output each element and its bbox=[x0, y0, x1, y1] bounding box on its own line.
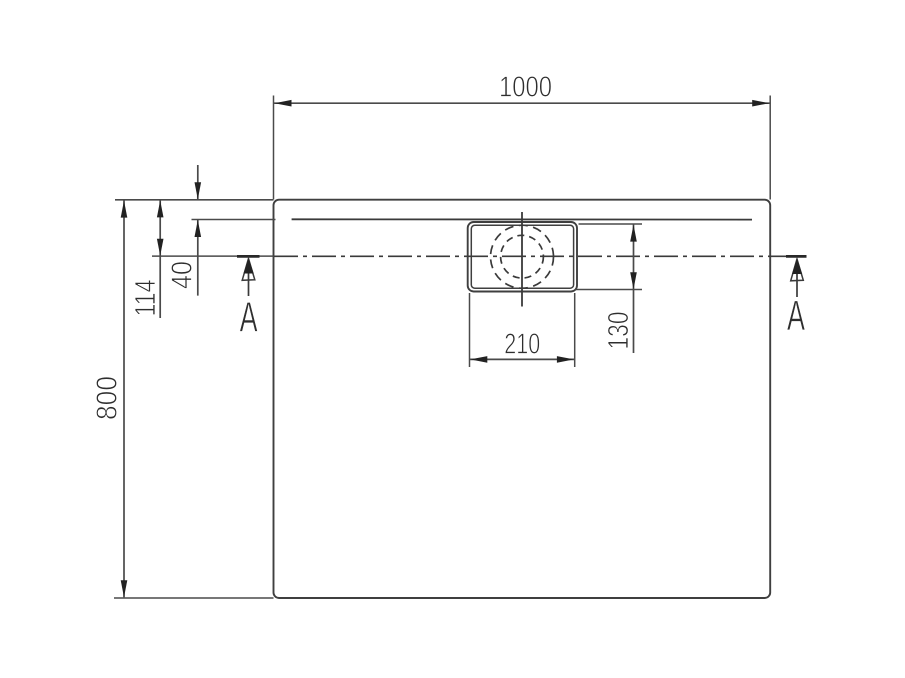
svg-text:1000: 1000 bbox=[499, 72, 552, 104]
tray outline bbox=[274, 200, 771, 598]
section arrow A left filled head bbox=[244, 258, 254, 273]
drain cover inner bbox=[471, 225, 573, 288]
dim 800 extension line bottom bbox=[114, 597, 274, 599]
dim 40 dimension line upper bbox=[197, 165, 199, 199]
dim 40 arrow down to top edge bbox=[195, 182, 202, 199]
dim 800 arrow up bbox=[121, 201, 128, 218]
centre line horizontal solid left part bbox=[152, 255, 274, 257]
dim 130 dimension line bbox=[633, 224, 635, 353]
dim 1000 arrow right bbox=[752, 100, 769, 107]
section arrow A left open head bbox=[242, 259, 255, 281]
dim 1000 extension line left bbox=[273, 96, 275, 200]
dim 210 extension line left bbox=[469, 293, 471, 367]
dim 800 extension line top bbox=[115, 199, 274, 201]
dim 114 arrow up bbox=[157, 200, 164, 217]
svg-text:130: 130 bbox=[603, 312, 635, 350]
dim 130 extension line top bbox=[579, 223, 643, 225]
tray floor waterline bbox=[292, 218, 752, 220]
dim 210 arrow right bbox=[557, 356, 574, 363]
svg-text:210: 210 bbox=[504, 329, 540, 361]
svg-text:A: A bbox=[787, 292, 805, 340]
dim 1000 arrow left bbox=[275, 100, 292, 107]
section line thick end right bbox=[786, 255, 807, 258]
dim 210 extension line right bbox=[574, 293, 576, 367]
dim 114 arrow down bbox=[157, 239, 164, 256]
section arrow A right filled head bbox=[792, 259, 802, 274]
svg-text:114: 114 bbox=[130, 280, 162, 317]
drain outer circle (hidden, dashed) bbox=[491, 225, 554, 288]
svg-text:A: A bbox=[240, 294, 258, 342]
section arrow A left tail bbox=[248, 262, 250, 296]
section arrow A right tail bbox=[796, 263, 798, 298]
section arrow A right open head bbox=[791, 259, 804, 281]
dim 114 dimension line bbox=[159, 200, 161, 318]
svg-text:800: 800 bbox=[92, 376, 124, 420]
dim 1000 dimension line bbox=[274, 102, 771, 104]
svg-text:40: 40 bbox=[167, 261, 199, 289]
dim 130 extension line bottom bbox=[576, 289, 643, 291]
dim 210 dimension line bbox=[470, 358, 575, 360]
dim 130 arrow up bbox=[630, 225, 637, 242]
section line thick end left bbox=[237, 255, 260, 258]
dim 210 arrow left bbox=[470, 356, 487, 363]
dim 130 arrow down bbox=[630, 272, 637, 289]
centre line horizontal dash-dot bbox=[274, 255, 805, 257]
dim 800 arrow down bbox=[121, 580, 128, 597]
dim 40 arrow up to floor line bbox=[195, 220, 202, 237]
drain cover outer bbox=[468, 222, 577, 292]
dim 40 dimension line lower bbox=[197, 220, 199, 296]
drain centre mark vertical bbox=[521, 212, 523, 307]
drain inner circle (hidden, dashed) bbox=[501, 235, 544, 278]
dim 1000 extension line right bbox=[769, 96, 771, 200]
dim 800 dimension line bbox=[123, 200, 125, 597]
dim 40 extension line bbox=[192, 219, 276, 221]
